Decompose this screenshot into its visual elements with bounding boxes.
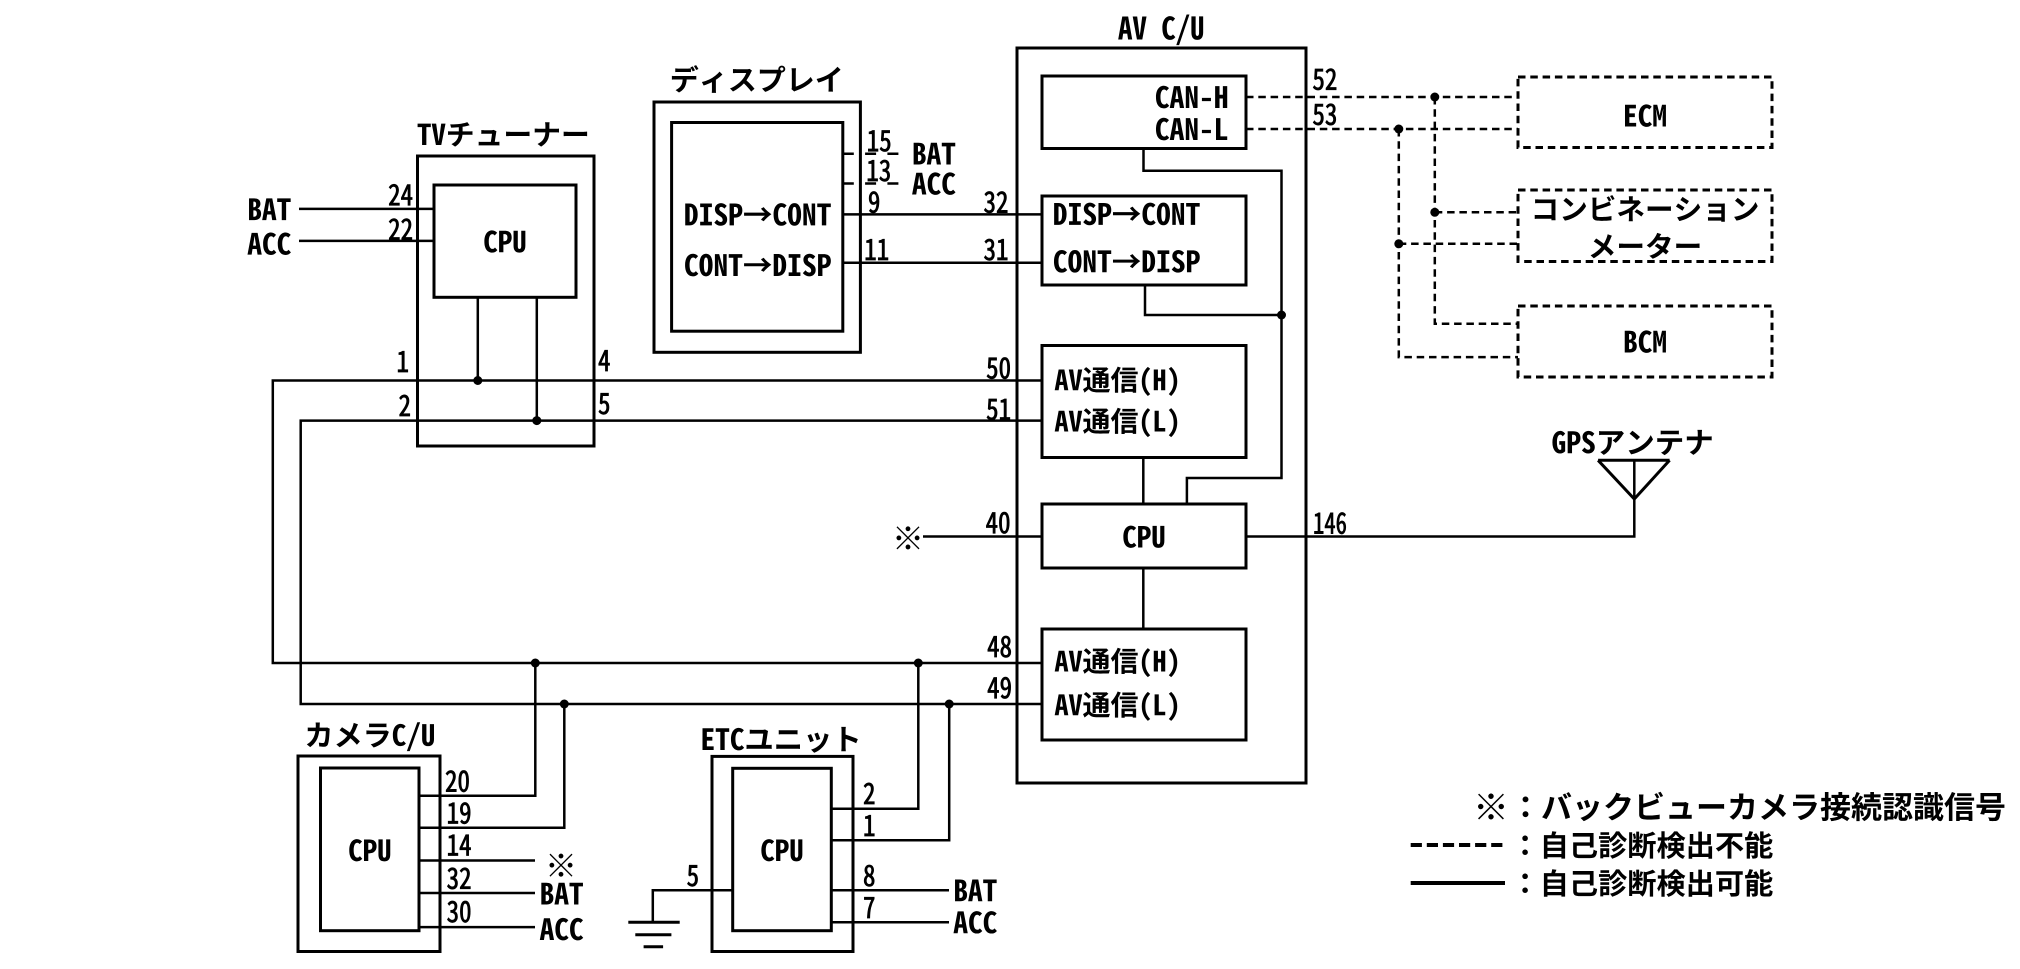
junction dot 49/ETC bbox=[945, 700, 954, 709]
pin 5 label bbox=[599, 393, 609, 414]
CAN-L text bbox=[1156, 118, 1227, 141]
BCM text bbox=[1625, 330, 1666, 352]
pin 2 label bbox=[400, 395, 410, 416]
wire DISP box down bbox=[1145, 285, 1282, 315]
BCM box bbox=[1518, 306, 1772, 377]
junction dot meter H bbox=[1430, 208, 1439, 217]
label ACC (TV) bbox=[248, 232, 291, 254]
display CONT-DISP text bbox=[685, 254, 831, 277]
AV comm box 1 bbox=[1042, 346, 1246, 458]
CAN-H text bbox=[1156, 86, 1227, 109]
TV tuner box bbox=[418, 156, 595, 446]
wire 146 to GPS antenna bbox=[1246, 460, 1634, 536]
wire CAN box to CPU bbox=[1144, 149, 1282, 505]
CAN-L branch to meter bbox=[1399, 243, 1518, 246]
legend line2 text bbox=[1522, 831, 1772, 859]
label BAT (camera) bbox=[541, 883, 583, 905]
camera CPU text bbox=[349, 839, 390, 861]
pin 4 label bbox=[599, 350, 610, 371]
AV DISP-CONT box bbox=[1042, 196, 1246, 285]
ETC pin 7 wire bbox=[831, 921, 949, 924]
ETC CPU box U4 bbox=[733, 768, 832, 930]
display DISP-CONT text bbox=[685, 203, 831, 226]
pin 15 label bbox=[868, 130, 890, 151]
pin 30 label bbox=[447, 901, 470, 922]
junction dot 48/camera bbox=[531, 659, 540, 668]
display outer box bbox=[654, 102, 860, 352]
AV C/U label bbox=[1118, 14, 1203, 45]
display inner box bbox=[672, 123, 843, 332]
junction dot 53 bbox=[1394, 125, 1403, 134]
wire AV comm L bus (pins 51/49) bbox=[301, 421, 1042, 704]
display pin 13 dashed stub bbox=[843, 182, 902, 185]
AV CPU box U1 bbox=[1042, 504, 1246, 568]
pin 51 label bbox=[987, 399, 1010, 420]
label BAT (display) bbox=[914, 143, 956, 165]
AV CONT-DISP text bbox=[1054, 250, 1200, 273]
TV tuner label TVチューナー bbox=[418, 122, 588, 147]
camera box bbox=[298, 756, 440, 952]
AV C/U box bbox=[1017, 48, 1306, 783]
wire display pin 11 to AV pin 31 bbox=[843, 262, 1042, 265]
ground bar 1 bbox=[628, 921, 679, 924]
CAN-L vertical dashed bbox=[1399, 129, 1518, 357]
wire 40 bbox=[923, 535, 1042, 538]
pin 31 label bbox=[984, 239, 1007, 260]
camera pin 32 label bbox=[447, 868, 470, 889]
pin 50 label bbox=[987, 357, 1010, 378]
wire BAT to pin 24 bbox=[299, 208, 434, 211]
pin 11 label bbox=[866, 239, 888, 260]
ETC pin 2 label bbox=[864, 783, 874, 804]
GPS antenna label GPSアンテナ bbox=[1552, 430, 1711, 455]
camera pin 19 wire bbox=[419, 704, 564, 828]
junction dot wire1/TV bbox=[473, 376, 482, 385]
pin 14 label bbox=[448, 835, 470, 856]
AV comm1 L text bbox=[1055, 408, 1178, 437]
wire AV comm H bus (pins 50/48) bbox=[273, 381, 1042, 664]
camera CPU box U3 bbox=[321, 768, 420, 931]
label BAT (ETC) bbox=[955, 880, 997, 902]
TV CPU stub to wire1 bbox=[477, 297, 480, 380]
ECM box bbox=[1518, 77, 1772, 148]
junction dot 49/camera bbox=[560, 700, 569, 709]
ETC pin 8 wire bbox=[831, 889, 949, 892]
backview camera mark (camera) bbox=[549, 854, 572, 877]
ETC pin 8 label bbox=[864, 865, 874, 886]
display pin 15 dashed stub bbox=[843, 152, 902, 155]
GPS antenna right diagonal bbox=[1634, 460, 1669, 499]
ETC pin 7 label bbox=[864, 897, 874, 918]
camera pin 32 wire bbox=[419, 892, 535, 895]
junction dot meter L bbox=[1394, 239, 1403, 248]
junction dot 48/ETC bbox=[914, 659, 923, 668]
AV comm box 2 bbox=[1042, 629, 1246, 740]
junction dot wire2/TV bbox=[532, 416, 541, 425]
combination meter text line1 bbox=[1535, 195, 1758, 222]
legend backview mark bbox=[1478, 794, 1504, 820]
pin 48 label bbox=[988, 636, 1011, 657]
GPS antenna top bar bbox=[1598, 459, 1670, 462]
ETC pin 5 wire to ground bbox=[653, 890, 733, 922]
wire 52 CAN-H dashed bbox=[1246, 96, 1518, 99]
AV comm2 H text bbox=[1055, 648, 1178, 677]
combination meter text line2 bbox=[1591, 233, 1700, 259]
camera label カメラC/U bbox=[307, 722, 434, 751]
pin 13 label bbox=[868, 160, 890, 181]
pin 19 label bbox=[448, 802, 470, 823]
legend line3 text bbox=[1522, 869, 1772, 897]
legend line1 text bbox=[1523, 792, 2005, 821]
ETC pin 2 wire bbox=[831, 663, 918, 809]
camera pin 30 wire bbox=[419, 926, 535, 929]
junction dot 52 bbox=[1430, 93, 1439, 102]
TV tuner CPU box U2 bbox=[434, 185, 576, 297]
AV CPU text bbox=[1123, 526, 1164, 548]
ground bar 2 bbox=[635, 933, 671, 936]
ETC pin 1 label bbox=[865, 815, 875, 836]
wire ACC to pin 22 bbox=[299, 240, 434, 243]
label ACC (camera) bbox=[540, 918, 583, 940]
pin 9 label bbox=[869, 192, 879, 213]
CAN-H branch to meter bbox=[1435, 211, 1518, 214]
legend solid sample bbox=[1411, 881, 1505, 885]
AV DISP-CONT text bbox=[1054, 203, 1200, 226]
ECM text bbox=[1625, 104, 1666, 126]
pin 20 label bbox=[446, 771, 469, 792]
TV CPU stub to wire2 bbox=[536, 297, 539, 420]
pin 40 label bbox=[986, 512, 1009, 533]
pin 32 label bbox=[984, 192, 1007, 213]
pin 24 label bbox=[389, 184, 412, 205]
legend dashed sample bbox=[1411, 843, 1503, 847]
wire CPU to comm2 bbox=[1142, 568, 1145, 629]
combination meter box bbox=[1518, 190, 1772, 262]
GPS antenna left diagonal bbox=[1598, 460, 1634, 499]
wire 53 CAN-L dashed bbox=[1246, 128, 1518, 131]
camera pin 14 wire bbox=[419, 859, 535, 862]
pin 146 label bbox=[1314, 513, 1345, 534]
backview camera mark (40) bbox=[896, 526, 919, 549]
pin 53 label bbox=[1313, 104, 1336, 125]
AV comm2 L text bbox=[1055, 691, 1178, 720]
camera pin 20 wire bbox=[419, 663, 535, 796]
wire display pin 9 to AV pin 32 bbox=[843, 213, 1042, 216]
ETC pin 1 wire bbox=[831, 704, 949, 840]
CAN box bbox=[1042, 76, 1246, 149]
ETC box bbox=[712, 756, 853, 951]
pin 1 label bbox=[398, 351, 408, 372]
pin 22 label bbox=[389, 219, 412, 240]
TV tuner CPU text bbox=[484, 230, 525, 252]
pin 49 label bbox=[988, 677, 1011, 698]
pin 52 label bbox=[1313, 69, 1336, 90]
label ACC (ETC) bbox=[954, 911, 997, 933]
label ACC (display) bbox=[912, 172, 955, 194]
ETC CPU text bbox=[761, 839, 802, 861]
label BAT (TV) bbox=[249, 198, 291, 220]
AV comm1 H text bbox=[1055, 367, 1178, 396]
ground bar 3 bbox=[644, 945, 664, 948]
CAN-H vertical dashed bbox=[1435, 97, 1518, 324]
junction dot internal bbox=[1277, 311, 1286, 320]
ETC pin 5 label bbox=[687, 865, 697, 886]
display label ディスプレイ bbox=[672, 65, 841, 93]
wire comm1 to CPU bbox=[1142, 458, 1145, 505]
ETC label ETCユニット bbox=[702, 727, 857, 753]
